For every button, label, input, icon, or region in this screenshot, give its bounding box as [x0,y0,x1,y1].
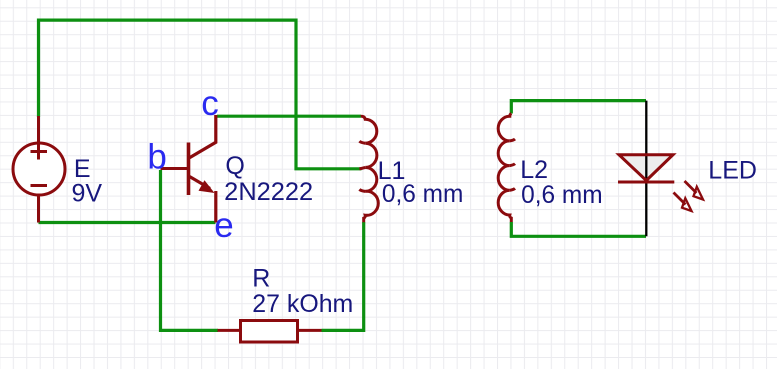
transistor Q1 base lead [161,167,188,170]
transistor Q1 base bar [187,143,191,196]
resistor R lead right [298,329,322,332]
transistor Q1 emitter [190,177,216,223]
transistor Q1 collector [190,115,216,158]
inductor L1 cusp curl 1 [359,141,365,143]
svg-text:LED: LED [708,156,757,184]
svg-text:e: e [214,206,233,245]
wire LED vertical (black) [645,101,647,237]
svg-text:b: b [147,138,166,177]
svg-text:2N2222: 2N2222 [224,178,313,206]
wire L2 bottom to LED cathode [511,222,646,236]
inductor L2 cusp curl 3 [510,188,515,190]
svg-text:E: E [74,155,91,183]
wire resistor R right to L1 bottom [322,222,364,330]
resistor R body [241,321,298,343]
inductor L1 coil [361,116,378,222]
inductor L2 cusp curl 2 [510,164,515,166]
svg-text:27 kOhm: 27 kOhm [252,290,353,318]
svg-text:c: c [201,84,219,123]
inductor L2 coil [498,113,511,222]
wire battery+ to L1 center tap [39,20,362,169]
wire base b to resistor R left [161,170,219,330]
svg-text:R: R [252,264,270,292]
svg-text:L2: L2 [520,156,548,184]
LED D1 cathode bar [618,181,674,184]
inductor L1 cusp curl 2 (center tap) [359,167,365,168]
inductor L1 cusp curl 3 [359,189,365,191]
transistor Q1 emitter arrowhead [199,180,215,193]
svg-text:0,6 mm: 0,6 mm [382,180,464,208]
resistor R lead left [218,329,241,332]
svg-text:9V: 9V [72,180,103,208]
wire L2 top to LED anode [511,101,646,114]
svg-text:Q: Q [225,152,244,180]
voltage source E lead top [37,116,40,160]
LED D1 triangle fill [619,155,673,181]
LED D1 emission arrow 1 [685,181,697,193]
voltage source E minus sign [31,184,48,187]
LED D1 triangle outline [619,155,673,181]
LED D1 emission arrow 2 [674,193,686,205]
inductor L2 cusp curl 1 [510,139,515,141]
wire battery- to emitter e [39,221,216,224]
voltage source E lead bottom [37,195,40,223]
wire collector c to L1 top [217,115,361,118]
svg-text:0,6 mm: 0,6 mm [521,181,603,209]
voltage source E plus sign [31,150,48,153]
voltage source E circle [13,143,65,195]
